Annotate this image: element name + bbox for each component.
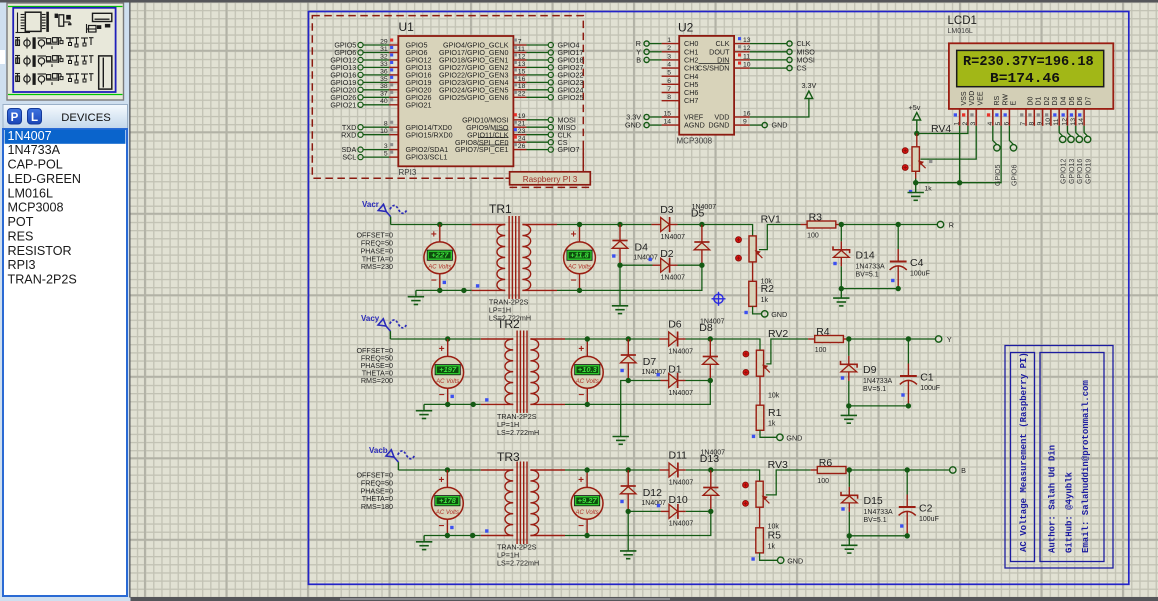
node bridge top right <box>699 222 704 227</box>
diode D2 1N4007 <box>620 264 653 266</box>
U1 pin 32 GPIO12 (left) <box>358 57 398 62</box>
terminal GND <box>777 434 783 440</box>
svg-text:CS: CS <box>797 64 807 73</box>
svg-text:TR1: TR1 <box>489 202 512 216</box>
ground at bridge <box>621 381 629 437</box>
U1 pin 29 GPIO5 (left) <box>358 42 398 47</box>
svg-text:−: − <box>431 275 437 286</box>
svg-text:1N4007: 1N4007 <box>669 390 694 397</box>
U1 pin 35 GPIO19 (left) <box>358 80 398 85</box>
svg-text:D2: D2 <box>1044 96 1051 105</box>
svg-text:1: 1 <box>954 122 961 126</box>
svg-text:Email: Salahuddin@protonmail.c: Email: Salahuddin@protonmail.com <box>1081 380 1091 553</box>
voltmeter primary row1 <box>439 225 441 243</box>
svg-text:8: 8 <box>1028 122 1035 126</box>
svg-text:B: B <box>636 56 641 65</box>
wire secondary bottom rail <box>565 381 710 405</box>
svg-text:CS/SHDN: CS/SHDN <box>697 64 729 73</box>
svg-text:2: 2 <box>962 122 969 126</box>
blue marker <box>485 529 488 532</box>
svg-text:RV1: RV1 <box>761 214 781 226</box>
U1 pin 37 GPIO26 (left) <box>358 95 398 100</box>
svg-text:RMS=200: RMS=200 <box>361 376 393 385</box>
LCD1 pin 14 D7 <box>1083 109 1085 126</box>
LCD1 pin 10 D3 <box>1050 109 1052 126</box>
U2 pin 1 CH0 <box>662 43 680 45</box>
svg-text:GND: GND <box>772 121 788 130</box>
wire primary bottom rail <box>424 403 481 405</box>
terminal 3.3V at VREF <box>650 116 662 118</box>
svg-text:1k: 1k <box>761 297 769 304</box>
svg-text:L: L <box>31 112 38 124</box>
node zener junction <box>846 336 851 341</box>
wire secondary top rail <box>565 469 660 471</box>
svg-text:C2: C2 <box>919 503 933 515</box>
node capacitor bottom junction <box>906 403 911 408</box>
svg-text:1N4007: 1N4007 <box>700 319 725 326</box>
sheet border <box>309 12 1129 585</box>
svg-text:100uF: 100uF <box>910 271 930 278</box>
wire secondary top rail <box>565 338 659 340</box>
U1 pin 13 GPIO27/GPIO_GEN2 (right) <box>513 65 553 70</box>
svg-text:100: 100 <box>815 347 827 354</box>
svg-text:3: 3 <box>384 143 388 150</box>
blue marker <box>752 435 755 438</box>
svg-text:+9.27: +9.27 <box>578 496 598 505</box>
zener diode D9 1N4733A <box>848 339 850 356</box>
diode D4 1N4007 vertical <box>619 225 621 241</box>
wire R1 to GND terminal <box>760 430 777 437</box>
zener diode D15 1N4733A <box>848 470 850 487</box>
svg-text:AC Volts: AC Volts <box>575 379 599 385</box>
terminal Y output <box>935 336 941 342</box>
svg-text:1N4007: 1N4007 <box>8 129 52 143</box>
svg-text:5: 5 <box>384 151 388 158</box>
U2 pin 15 VREF <box>662 116 680 118</box>
svg-text:−: − <box>438 521 444 532</box>
U2 pin 7 CH6 <box>662 92 680 94</box>
U1 pin 21 GPIO9/MISO (right) <box>513 125 553 130</box>
terminal B output <box>950 467 956 473</box>
svg-text:38: 38 <box>380 83 388 90</box>
U1 pin 15 GPIO22/GPIO_GEN3 (right) <box>513 72 553 77</box>
svg-text:AC Voltage Measurement (Raspbe: AC Voltage Measurement (Raspberry PI) <box>1019 352 1029 552</box>
node primary bottom lead junction <box>471 402 476 407</box>
svg-text:GPIO21: GPIO21 <box>330 100 356 109</box>
wire LCD VSS to ground rail <box>959 126 961 183</box>
ground at output filter <box>848 406 850 416</box>
node bridge mid right <box>708 378 713 383</box>
svg-text:VDD: VDD <box>969 91 976 106</box>
svg-text:D6: D6 <box>1077 96 1084 105</box>
diode D10 1N4007 <box>628 510 661 512</box>
svg-text:8: 8 <box>667 94 671 101</box>
svg-text:GPIO21: GPIO21 <box>406 100 432 109</box>
blue marker <box>451 395 454 398</box>
svg-text:BV=5.1: BV=5.1 <box>863 386 886 393</box>
svg-text:MCP3008: MCP3008 <box>677 137 713 146</box>
terminal R output <box>937 221 943 227</box>
svg-text:RMS=230: RMS=230 <box>361 262 393 271</box>
svg-text:37: 37 <box>380 91 388 98</box>
svg-text:RMS=180: RMS=180 <box>361 502 393 511</box>
wire LCD VDD to +5v rail <box>917 126 968 134</box>
svg-text:19: 19 <box>518 113 526 120</box>
terminal Y at U2 input <box>650 51 662 53</box>
svg-text:100: 100 <box>817 478 829 485</box>
U1 pin 36 GPIO16 (left) <box>358 72 398 77</box>
svg-text:13: 13 <box>1070 118 1077 126</box>
svg-text:DGND: DGND <box>708 121 729 130</box>
svg-text:+178: +178 <box>439 496 457 505</box>
diode D1 1N4007 <box>628 380 660 382</box>
node secondary bottom junction <box>585 402 590 407</box>
svg-text:1N4733A: 1N4733A <box>864 509 894 516</box>
svg-text:12: 12 <box>518 53 526 60</box>
svg-text:1k: 1k <box>925 186 933 193</box>
devices list box <box>3 129 127 596</box>
svg-text:Vacb: Vacb <box>369 446 388 455</box>
U2 pin 3 CH2 <box>662 59 680 61</box>
svg-text:2: 2 <box>667 45 671 52</box>
LCD1 pin 6 E <box>1008 109 1010 126</box>
svg-text:GPIO16: GPIO16 <box>1077 159 1084 184</box>
node bridge mid right <box>708 509 713 514</box>
svg-text:32: 32 <box>380 53 388 60</box>
svg-text:R2: R2 <box>761 283 775 295</box>
svg-text:D11: D11 <box>669 450 688 462</box>
svg-text:+: + <box>439 344 445 355</box>
svg-text:16: 16 <box>743 110 751 117</box>
svg-text:D15: D15 <box>864 495 883 507</box>
svg-text:+: + <box>578 475 584 486</box>
blue marker <box>841 507 844 510</box>
blue marker <box>900 524 903 527</box>
svg-text:16: 16 <box>518 76 526 83</box>
left panel background <box>0 3 131 601</box>
terminal B at U2 input <box>650 59 662 61</box>
U1 pin 10 RXD (left) <box>358 132 398 137</box>
LCD1 pin 4 RS <box>992 109 994 126</box>
svg-text:LCD1: LCD1 <box>948 15 977 27</box>
svg-text:1k: 1k <box>768 543 776 550</box>
window bottom edge <box>131 597 1158 601</box>
terminal GND <box>762 311 768 317</box>
svg-text:DEVICES: DEVICES <box>61 112 111 124</box>
svg-text:GND: GND <box>771 310 787 319</box>
svg-text:GND: GND <box>787 556 803 565</box>
svg-text:U1: U1 <box>399 20 415 34</box>
wire rail to capacitor <box>849 338 909 340</box>
svg-text:40: 40 <box>380 98 388 105</box>
svg-text:BV=5.1: BV=5.1 <box>856 272 879 279</box>
node bridge top right <box>708 336 713 341</box>
svg-text:7: 7 <box>667 86 671 93</box>
wire to bridge top right <box>678 224 702 226</box>
svg-text:8: 8 <box>384 121 388 128</box>
blue marker <box>833 262 836 265</box>
U1 pin 11 GPIO17/GPIO_GEN0 (right) <box>513 50 553 55</box>
wire AC source to transformer primary <box>398 469 480 471</box>
node capacitor junction <box>906 336 911 341</box>
svg-text:GND: GND <box>786 433 802 442</box>
terminal GPIO13 at LCD data pin <box>1068 126 1072 136</box>
svg-text:B: B <box>961 466 966 475</box>
svg-text:D2: D2 <box>660 248 674 260</box>
svg-text:1N4007: 1N4007 <box>669 521 694 528</box>
ground at bridge <box>627 511 629 551</box>
window top edge <box>0 0 1158 3</box>
U2 pin 11 DIN to terminal MOSI <box>734 59 750 61</box>
svg-text:D4: D4 <box>635 242 649 254</box>
svg-text:1N4007: 1N4007 <box>641 500 666 507</box>
svg-text:RW: RW <box>1002 94 1009 106</box>
diode D3 1N4007 <box>651 224 660 226</box>
svg-text:U2: U2 <box>678 21 694 35</box>
svg-text:13: 13 <box>743 37 751 44</box>
node bridge top right <box>708 467 713 472</box>
svg-text:7: 7 <box>518 38 522 45</box>
LCD1 pin 12 D5 <box>1067 109 1069 126</box>
wire rail to capacitor <box>849 469 907 471</box>
svg-text:LM016L: LM016L <box>948 28 973 35</box>
node primary top junction <box>445 467 450 472</box>
svg-text:LM016L: LM016L <box>8 186 54 200</box>
svg-text:D6: D6 <box>668 319 682 331</box>
node capacitor junction <box>896 222 901 227</box>
wire AC source to transformer primary <box>391 224 472 226</box>
svg-text:P: P <box>11 112 19 124</box>
LCD1 pin 2 VDD <box>967 109 969 126</box>
node zener bottom junction <box>839 286 844 291</box>
svg-text:23: 23 <box>518 128 526 135</box>
svg-text:5: 5 <box>995 122 1002 126</box>
wire secondary top rail <box>557 224 651 226</box>
svg-text:33: 33 <box>380 61 388 68</box>
svg-text:CH7: CH7 <box>684 96 698 105</box>
svg-text:12: 12 <box>743 45 751 52</box>
svg-text:14: 14 <box>1078 118 1085 126</box>
wire RV1 wiper to rail <box>759 225 801 250</box>
svg-text:1N4733A: 1N4733A <box>863 378 893 385</box>
svg-text:RPI3: RPI3 <box>399 168 417 177</box>
svg-text:1N4007: 1N4007 <box>701 450 726 457</box>
U1 pin 18 GPIO24/GPIO_GEN5 (right) <box>513 87 553 92</box>
svg-text:+10.3: +10.3 <box>578 365 598 374</box>
svg-text:D3: D3 <box>1052 96 1059 105</box>
svg-text:TRAN-2P2S: TRAN-2P2S <box>8 273 77 287</box>
svg-text:Author: Salah Ud Din: Author: Salah Ud Din <box>1048 445 1058 553</box>
node bridge mid left <box>626 378 631 383</box>
U2 pin 8 CH7 <box>662 100 680 102</box>
node zener junction <box>839 222 844 227</box>
node bridge mid left <box>626 509 631 514</box>
U1 pin 40 GPIO21 (left) <box>358 102 398 107</box>
U2 pin 12 DOUT to terminal MISO <box>734 51 750 53</box>
svg-text:31: 31 <box>380 46 388 53</box>
svg-text:GPIO12: GPIO12 <box>1061 159 1068 184</box>
diode D6 1N4007 <box>659 338 668 340</box>
LCD1 pin 9 D2 <box>1042 109 1044 126</box>
U1 region dashed border <box>312 16 583 179</box>
ground at primary <box>423 536 425 542</box>
U1 pin 7 GPIO4/GPIO_GCLK (right) <box>513 42 553 47</box>
svg-text:GPIO5: GPIO5 <box>995 164 1002 186</box>
node zener junction <box>847 467 852 472</box>
svg-text:GitHub: @4yublk: GitHub: @4yublk <box>1065 471 1075 553</box>
svg-text:100uF: 100uF <box>919 516 939 523</box>
svg-text:1N4007: 1N4007 <box>692 204 717 211</box>
node bridge top left <box>626 336 631 341</box>
wire to bridge top right <box>686 469 711 471</box>
svg-text:10: 10 <box>380 128 388 135</box>
ground below RV4 <box>915 183 917 193</box>
svg-text:−: − <box>578 390 584 401</box>
svg-text:GPIO7/SPI_CE1: GPIO7/SPI_CE1 <box>455 145 509 154</box>
svg-text:+: + <box>431 229 437 240</box>
svg-text:AGND: AGND <box>684 121 705 130</box>
U2 pin 13 CLK to terminal CLK <box>734 43 750 45</box>
terminal GPIO19 at LCD data pin <box>1084 126 1088 136</box>
blue marker <box>744 311 747 314</box>
svg-text:1N4733A: 1N4733A <box>856 264 886 271</box>
voltmeter primary row2 <box>447 339 449 357</box>
svg-text:D7: D7 <box>643 356 657 368</box>
overview preview box <box>7 3 124 100</box>
blue marker <box>901 393 904 396</box>
svg-text:Vacy: Vacy <box>361 314 380 323</box>
svg-text:−: − <box>578 521 584 532</box>
blue marker <box>443 281 446 284</box>
terminal GPIO6 at LCD E <box>1009 126 1013 145</box>
node secondary top junction <box>585 336 590 341</box>
node secondary top junction <box>584 467 589 472</box>
svg-text:21: 21 <box>518 121 526 128</box>
svg-text:R: R <box>949 220 954 229</box>
node VSS-rail junction <box>957 180 962 185</box>
svg-text:D12: D12 <box>643 487 662 499</box>
svg-text:+197: +197 <box>439 365 457 374</box>
svg-text:10: 10 <box>1045 118 1052 126</box>
node bridge mid left <box>617 263 622 268</box>
svg-text:MCP3008: MCP3008 <box>8 201 64 215</box>
node primary bottom lead junction <box>470 533 475 538</box>
U2 pin 6 CH5 <box>662 83 680 85</box>
U1 pin 33 GPIO13 (left) <box>358 65 398 70</box>
diode D7 1N4007 vertical <box>627 339 629 355</box>
svg-text:D9: D9 <box>863 364 877 376</box>
wire bridge output to RV1 <box>702 225 753 236</box>
svg-text:D14: D14 <box>856 250 875 262</box>
wire to output terminal B <box>907 469 949 471</box>
svg-text:3: 3 <box>667 53 671 60</box>
svg-text:6: 6 <box>667 78 671 85</box>
resistor R3 100 <box>801 224 808 226</box>
svg-text:1N4007: 1N4007 <box>661 234 686 241</box>
svg-text:+11.8: +11.8 <box>570 251 589 260</box>
U2 pin 14 AGND <box>662 124 680 126</box>
blue marker <box>751 557 754 560</box>
diode D11 1N4007 <box>660 469 669 471</box>
svg-text:R4: R4 <box>816 326 830 338</box>
LCD1 pin 11 D4 <box>1058 109 1060 126</box>
svg-text:+: + <box>438 475 444 486</box>
U2 pin 2 CH1 <box>662 51 680 53</box>
ground at output filter <box>848 536 850 546</box>
svg-text:E: E <box>1011 101 1018 106</box>
blue marker <box>891 279 894 282</box>
terminal GND at AGND <box>650 124 662 126</box>
svg-text:1N4007: 1N4007 <box>642 369 667 376</box>
node capacitor bottom junction <box>896 286 901 291</box>
svg-text:GPIO7: GPIO7 <box>558 145 580 154</box>
svg-text:R6: R6 <box>819 457 833 469</box>
capacitor C4 100uF <box>897 225 899 250</box>
node voltmeter bottom junction <box>445 402 450 407</box>
svg-text:18: 18 <box>518 83 526 90</box>
svg-text:13: 13 <box>518 61 526 68</box>
blue marker <box>476 284 479 287</box>
svg-text:1: 1 <box>667 37 671 44</box>
svg-text:11: 11 <box>743 53 750 60</box>
svg-text:C4: C4 <box>910 257 924 269</box>
node secondary bottom junction <box>577 288 582 293</box>
svg-text:24: 24 <box>518 136 526 143</box>
wire LCD VEE to RV4 wiper <box>921 126 977 159</box>
blue marker <box>620 500 623 503</box>
U2 pin 9 DGND with GND terminal <box>734 124 750 126</box>
blue marker <box>450 526 453 529</box>
blue marker <box>841 376 844 379</box>
diode D12 1N4007 vertical <box>627 470 629 486</box>
svg-text:LS=2.722mH: LS=2.722mH <box>497 428 539 437</box>
U2 pin 4 CH3 <box>662 67 680 69</box>
blue marker <box>657 373 660 376</box>
wire bridge output to RV2 <box>710 339 760 350</box>
svg-text:1k: 1k <box>768 421 776 428</box>
U1 pin 16 GPIO23/GPIO_GEN4 (right) <box>513 80 553 85</box>
svg-text:35: 35 <box>380 76 388 83</box>
wire zener to capacitor bottom <box>849 535 907 537</box>
U1 pin 23 GPIO11/CLK (right) <box>513 132 553 137</box>
svg-text:CAP-POL: CAP-POL <box>8 158 63 172</box>
svg-text:−: − <box>571 275 577 286</box>
svg-text:14: 14 <box>663 119 671 126</box>
node primary top junction <box>445 336 450 341</box>
svg-text:RXD: RXD <box>341 130 356 139</box>
svg-text:D1: D1 <box>1036 96 1043 105</box>
svg-text:AC Volts: AC Volts <box>435 510 459 516</box>
svg-text:SCL: SCL <box>342 153 356 162</box>
svg-text:29: 29 <box>380 38 388 45</box>
voltmeter secondary row3 <box>586 470 588 488</box>
svg-text:D3: D3 <box>660 204 674 216</box>
U1 pin 38 GPIO20 (left) <box>358 87 398 92</box>
ground at primary <box>423 404 425 410</box>
svg-text:4: 4 <box>667 62 671 69</box>
Raspberry PI 3 caption box <box>582 148 584 172</box>
zener diode D14 1N4733A <box>840 225 842 242</box>
U2 pin 10 CS/SHDN to terminal CS <box>734 67 750 69</box>
node bridge top left <box>626 467 631 472</box>
node bridge top left <box>617 222 622 227</box>
svg-text:RV3: RV3 <box>768 459 788 471</box>
node capacitor bottom junction <box>905 533 910 538</box>
blue marker <box>612 254 615 257</box>
resistor R4 100 <box>808 338 815 340</box>
svg-text:R3: R3 <box>809 211 823 223</box>
svg-text:GPIO13: GPIO13 <box>1069 159 1076 184</box>
